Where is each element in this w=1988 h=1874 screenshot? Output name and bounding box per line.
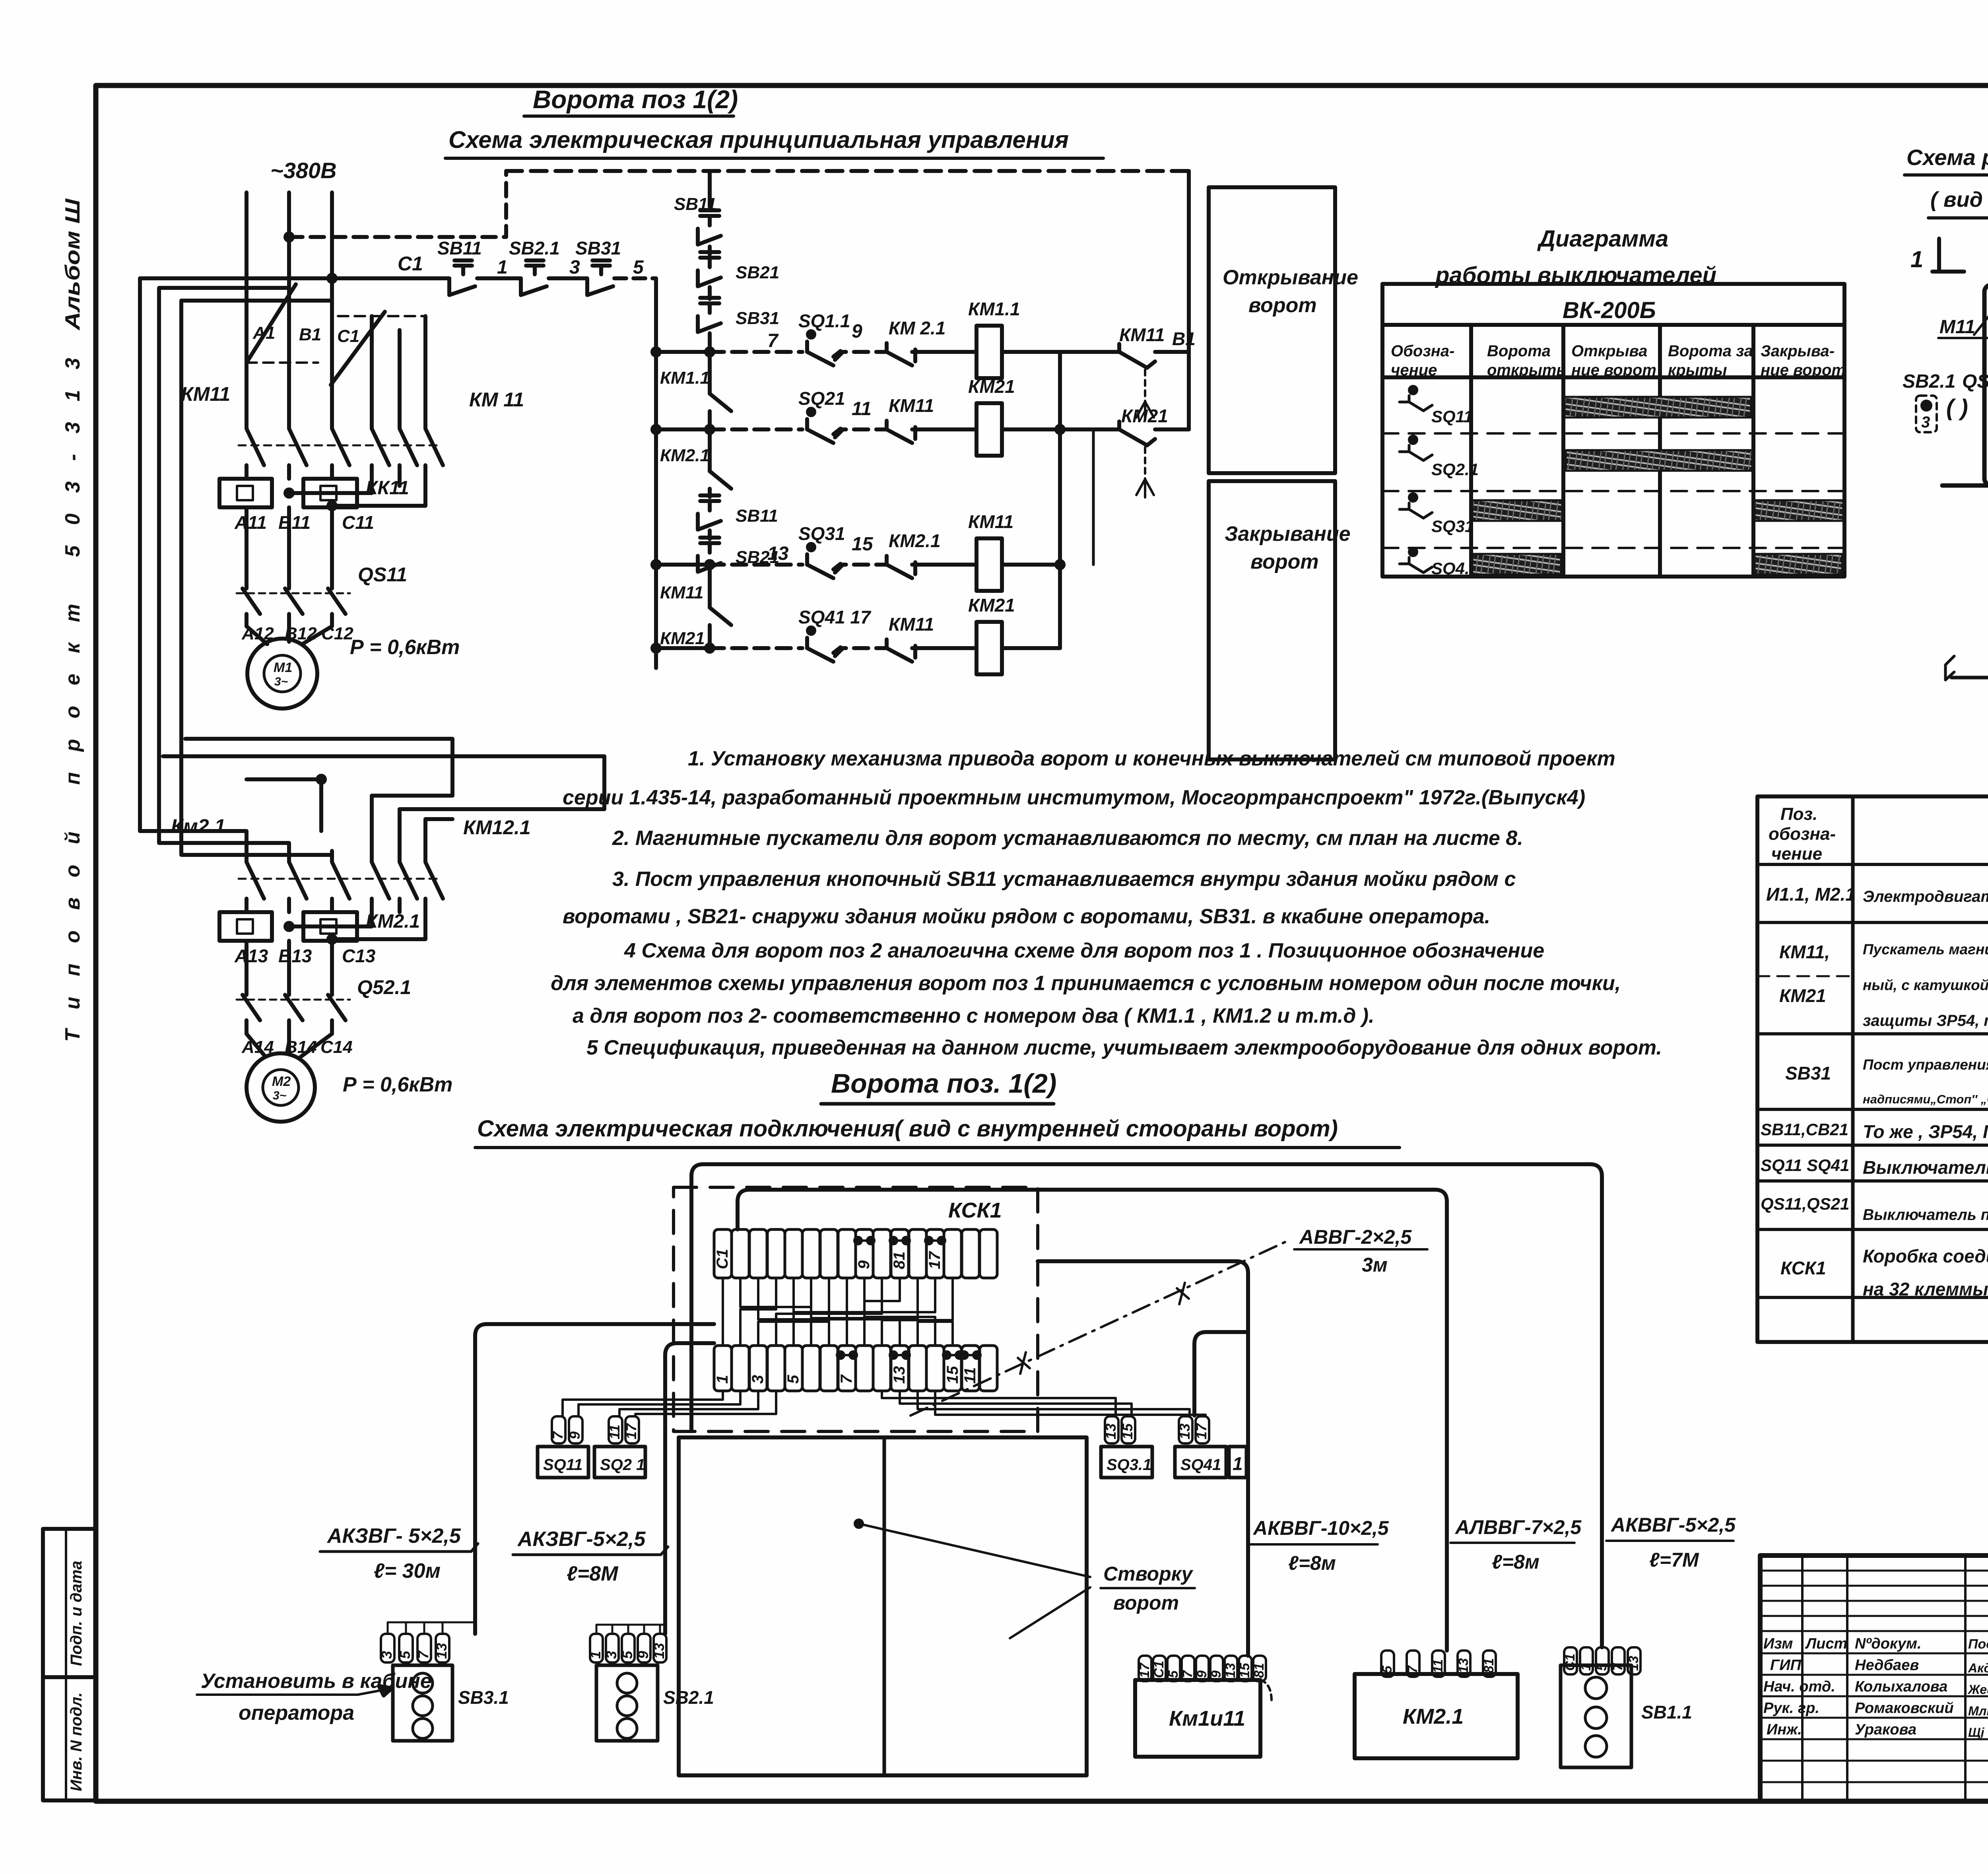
wire dashed branch from phase B to control circuit [289,171,506,237]
contactor KM2.1 main contacts [171,815,531,839]
svg-text:9: 9 [567,1431,583,1439]
terminal cell upper 14 [944,1229,961,1278]
wire jumper 10 between terminal rows [776,1278,882,1346]
svg-text:9: 9 [1194,1670,1209,1678]
wire jumper 4 between terminal rows [740,1278,776,1346]
limit switch box SQ11 [538,1447,588,1478]
KM11 contact blade at x=1005 [400,418,417,479]
svg-text:КСК1: КСК1 [1780,1258,1826,1278]
svg-text:ние ворот: ние ворот [1761,361,1846,379]
svg-text:7: 7 [1405,1665,1420,1673]
limit switch box SQ2 1 [594,1447,645,1478]
svg-text:13: 13 [1626,1656,1641,1671]
svg-text:ℓ=8м: ℓ=8м [1492,1551,1540,1573]
terminal cell upper 9 [856,1229,873,1278]
svg-text:Закрывание: Закрывание [1225,522,1351,546]
interlock contact KM11 right [1119,324,1196,349]
svg-text:SВ2.1: SВ2.1 [663,1687,714,1708]
coil КМ21 [968,376,1015,397]
svg-text:11: 11 [606,1425,623,1439]
svg-text:Пускатель магнитный ПМЕ-134, п: Пускатель магнитный ПМЕ-134, первой вели… [1863,941,1988,957]
svg-text:КМ21: КМ21 [968,376,1015,397]
svg-text:АКВВГ-5×2,5: АКВВГ-5×2,5 [1610,1514,1736,1536]
wire from SQ41 to cable [1194,1332,1248,1416]
svg-text:на 32 клеммы , КсК-32: на 32 клеммы , КсК-32 [1863,1279,1988,1299]
cable label AKBBG-10x2.5 8m [1252,1517,1389,1574]
svg-text:ние ворот: ние ворот [1571,361,1656,379]
svg-text:серии 1.435-14, разработанный: серии 1.435-14, разработанный проектным … [563,786,1585,809]
wire reverse trio merge [289,479,372,493]
devices SB2.1 QS11 [1903,371,1988,392]
svg-text:С1: С1 [1151,1661,1167,1678]
NC contact КМ11 [889,614,934,635]
svg-text:3: 3 [749,1375,767,1384]
push button station SB1.1 [1564,1647,1577,1674]
svg-text:чение: чение [1391,361,1437,379]
wires to switch QS11 [245,507,248,588]
svg-text:3~: 3~ [274,675,288,688]
wire phase A vertical [245,192,248,418]
svg-text:Подп.: Подп. [1968,1637,1988,1652]
switch row SQ11 [1400,396,1432,411]
svg-text:Диаграмма: Диаграмма [1537,226,1668,252]
push button SB21 lower [700,536,719,540]
wire jumper 3 between terminal rows [758,1278,900,1346]
terminal cell lower 10 [873,1346,891,1391]
terminal cell lower 7 [820,1346,838,1391]
terminal cell upper 1 [714,1229,732,1278]
svg-text:И1.1, М2.1: И1.1, М2.1 [1766,884,1856,905]
wire tag 13 [1179,1416,1192,1443]
state bar [1565,397,1751,418]
svg-text:Р = 0,6кВт: Р = 0,6кВт [343,1073,452,1096]
terminal cell upper 12 [909,1229,926,1278]
svg-text:Схема расположения электрооб: Схема расположения электрооборудования в… [1906,145,1988,170]
wire left loop 1 [140,278,247,851]
svg-text:Ворота: Ворота [1487,342,1551,360]
limit switch SQ1.1 [798,311,850,331]
svg-text:КМ2.1: КМ2.1 [660,446,710,465]
svg-text:Пост управления кнопочный ПКЕ-: Пост управления кнопочный ПКЕ-212-3у3 тр… [1863,1056,1988,1073]
svg-text:SB11: SB11 [437,238,482,258]
notes text block [551,747,1662,1059]
svg-text:Поз.: Поз. [1780,804,1817,824]
svg-text:9: 9 [635,1651,651,1659]
svg-text:С1: С1 [714,1249,731,1269]
svg-text:оператора: оператора [239,1701,354,1724]
cable label AVVG-7x2.5 8m [1454,1516,1582,1573]
section mark 1 left [1910,247,1923,272]
push button station SB3.1 [381,1634,394,1662]
svg-text:5: 5 [619,1651,635,1659]
svg-text:КМ11,: КМ11, [1779,942,1830,962]
svg-text:Лист: Лист [1805,1635,1847,1652]
terminal cell lower 11 [891,1346,909,1391]
svg-text:1: 1 [714,1375,731,1384]
rung 2 tap [656,427,710,431]
svg-text:Выключатель пакетный, 6,3А, ~3: Выключатель пакетный, 6,3А, ~380В,ГПЗМЗ-… [1863,1206,1988,1223]
wire C1 control feed [140,276,449,280]
svg-text:5: 5 [1166,1670,1181,1678]
svg-text:Ворота поз 1(2): Ворота поз 1(2) [533,85,738,114]
svg-text:SQ21: SQ21 [798,388,845,409]
svg-text:3: 3 [603,1651,619,1659]
svg-text:SB2.1: SB2.1 [509,238,560,258]
svg-text:КМ2.1: КМ2.1 [366,911,420,932]
KM2.1 contact blade at x=835 [332,851,349,912]
diagram table BK-200B [1382,284,1844,577]
limit switch SQ31 [798,523,845,544]
svg-text:КМ2.1: КМ2.1 [1403,1705,1464,1728]
terminal cell upper 5 [785,1229,802,1278]
wire jumper 13 between terminal rows [794,1278,935,1346]
specification table [1757,796,1988,1342]
svg-text:SQ2.1: SQ2.1 [1431,460,1479,479]
KM11 contact blade at x=1070 [425,418,443,479]
KM2.1 contact blade at x=935 [372,851,389,912]
svg-text:В11: В11 [278,512,311,533]
svg-text:3: 3 [569,257,580,278]
svg-text:17: 17 [623,1423,639,1439]
svg-text:Обозна-: Обозна- [1391,342,1454,360]
svg-text:М1: М1 [274,660,292,675]
svg-text:АКВВГ-10×2,5: АКВВГ-10×2,5 [1252,1517,1389,1539]
svg-text:QS11,QS21: QS11,QS21 [1761,1194,1849,1214]
push button SB2.1 [509,238,580,295]
svg-text:КМ12.1: КМ12.1 [463,816,531,839]
wire interconnect band 3 [247,779,321,831]
wire top control bus [506,169,1189,173]
svg-text:7: 7 [838,1374,855,1384]
svg-text:М2: М2 [272,1074,291,1089]
KM11 contact blade at x=620 [247,418,264,479]
terminal cell lower 6 [802,1346,820,1391]
wire tag 11 [609,1416,622,1443]
svg-text:для элементов схемы управле: для элементов схемы управления ворот поз… [551,972,1621,995]
wire main loop to SB1.1 cable [691,1164,1602,1647]
svg-text:КМ11: КМ11 [889,395,934,416]
svg-text:SQ1.1: SQ1.1 [798,311,850,331]
svg-text:Акдрф: Акдрф [1968,1661,1988,1675]
svg-text:15: 15 [944,1366,961,1384]
svg-text:1: 1 [1910,247,1923,272]
svg-text:А11: А11 [234,512,267,533]
svg-text:SB2.1: SB2.1 [1903,371,1955,392]
svg-text:а для ворот поз 2- соответ: а для ворот поз 2- соответственно с номе… [573,1004,1375,1027]
state bar [1566,450,1752,471]
svg-text:SQ41 17: SQ41 17 [798,607,872,627]
svg-text:SQ31: SQ31 [1431,517,1474,536]
svg-text:Р = 0,6кВт: Р = 0,6кВт [350,636,460,659]
terminal cell upper 10 [873,1229,891,1278]
svg-text:SQ2 1: SQ2 1 [600,1456,645,1474]
wire left cable SB3.1 riser [475,1324,714,1634]
note install in operator cab [201,1670,432,1724]
svg-text:С13: С13 [342,946,376,966]
wire KM1i11 cable riser [1038,1261,1248,1656]
svg-text:чение: чение [1771,844,1822,864]
wire cable SB2.1 riser [665,1343,714,1634]
push button SB11 lower [700,493,719,497]
svg-text:3: 3 [379,1651,395,1659]
svg-text:13: 13 [767,543,789,564]
wire jumper 1 between terminal rows [722,1278,724,1346]
wires funnel to motor M2.1 [247,1020,266,1057]
svg-text:Схема электрическая подключе: Схема электрическая подключения( вид с в… [477,1116,1338,1142]
KM2.1 contact blade at x=1070 [425,851,443,912]
box Opening of gates [1209,187,1335,473]
svg-text:В13: В13 [278,946,312,966]
svg-text:А1: А1 [252,323,275,343]
svg-text:КМ11: КМ11 [660,583,703,602]
gate leaf rectangle [679,1437,1087,1775]
coil КМ1.1 [968,299,1020,319]
motor M2.1 [247,1053,315,1122]
svg-text:АЛВВГ-7×2,5: АЛВВГ-7×2,5 [1454,1516,1582,1538]
svg-text:13: 13 [651,1643,667,1659]
control ladder left rail [654,278,658,668]
terminal cell upper 8 [838,1229,856,1278]
limit switch SQ41 17 [798,607,872,627]
svg-text:SВ1.1: SВ1.1 [1641,1702,1692,1723]
state bar [1755,554,1842,575]
cable label AKBBG-5x2.5 7m [1610,1514,1736,1571]
push button SB3.1 [700,296,719,300]
subtitle Shema elektricheskaya printsipialnaya upravleniya [448,126,1069,153]
svg-text:Нач. отд.: Нач. отд. [1763,1678,1835,1695]
svg-text:КМ1.1: КМ1.1 [660,368,710,388]
diagram table title [1435,226,1716,288]
wire tag 9 [569,1416,582,1443]
switch row SQ4.1 [1400,557,1432,573]
box Closing of gates [1209,481,1335,759]
wire crossover to reverse group [331,312,385,385]
label Stvorku vorot [859,1524,1090,1638]
svg-text:13: 13 [1456,1658,1471,1673]
svg-text:Ворота поз. 1(2): Ворота поз. 1(2) [831,1068,1056,1099]
title layout of equipment [1906,145,1988,170]
svg-text:~380В: ~380В [270,158,337,183]
svg-text:SB31: SB31 [575,238,621,258]
wire left loop 3 [181,301,332,855]
svg-text:КМ11: КМ11 [1119,324,1165,345]
svg-text:С1: С1 [337,326,359,346]
rail section line [1951,676,1988,680]
thermal relay KK11 heaters [219,479,272,507]
svg-text:Выключатель конечный ВК-200Б: Выключатель конечный ВК-200Б [1863,1157,1988,1178]
QS11 blade at x=620 [243,588,260,614]
svg-text:7: 7 [1180,1670,1195,1678]
svg-text:КМ11: КМ11 [968,511,1013,532]
KM2.1 contact blade at x=727 [289,851,307,912]
ground line [1942,484,1988,488]
svg-text:ℓ=7М: ℓ=7М [1649,1549,1699,1571]
svg-text:1: 1 [1233,1453,1243,1474]
svg-text:SQ41: SQ41 [1180,1456,1221,1474]
terminal cell upper 15 [962,1229,979,1278]
NC contact КМ2.1 [889,530,941,551]
svg-text:SB11: SB11 [736,506,778,526]
svg-text:С1: С1 [398,252,423,275]
svg-text:Открывание: Открывание [1223,266,1358,289]
svg-text:13: 13 [433,1643,450,1659]
push button SB11 [437,238,508,295]
terminal cell lower 12 [909,1346,926,1391]
svg-text:3. Пост управления кнопочный: 3. Пост управления кнопочный SВ11 устана… [612,868,1516,891]
terminal cell upper 4 [767,1229,785,1278]
svg-text:17: 17 [1137,1662,1152,1678]
wire phase C vertical [330,192,334,418]
push button SB11 top [674,194,716,214]
svg-text:Схема электрическая принципи: Схема электрическая принципиальная управ… [448,126,1069,153]
svg-text:Подп. и дата: Подп. и дата [68,1561,85,1666]
svg-text:SB3.1: SB3.1 [458,1687,509,1708]
wire tag 17 [625,1416,639,1443]
wire loop 2 to KM2.1 cable [738,1190,1447,1651]
svg-text:7: 7 [415,1650,431,1659]
svg-text:2. Магнитные пускатели для: 2. Магнитные пускатели для ворот устанав… [612,827,1523,850]
QS11 blade at x=727 [285,588,303,614]
svg-text:Электродвигатель асинхронный 3: Электродвигатель асинхронный 380В, 0,6кВ… [1863,888,1988,905]
svg-text:С1: С1 [1563,1654,1578,1671]
svg-text:9: 9 [852,321,862,342]
limit switch SQ21 [798,388,845,409]
svg-text:SВ11,СВ21: SВ11,СВ21 [1761,1120,1848,1139]
dashed boundary box KCK1 [674,1187,1038,1431]
state bar [1472,500,1562,521]
svg-text:Колыхалова: Колыхалова [1855,1678,1947,1695]
terminal cell upper 13 [926,1229,944,1278]
svg-text:QS11: QS11 [358,563,407,586]
wire rung collector vertical [1058,352,1062,648]
svg-text:11: 11 [961,1367,979,1384]
svg-text:Nºдокум.: Nºдокум. [1855,1635,1922,1652]
svg-text:13: 13 [1223,1663,1238,1678]
svg-text:Установить в кабине: Установить в кабине [201,1670,432,1693]
wires funnel to motor M11 [247,614,267,644]
wire jumper 7 between terminal rows [758,1278,829,1346]
rung at y=1420 [710,563,802,567]
svg-text:SQ31: SQ31 [798,523,845,544]
push button SB2.1 [700,250,719,254]
svg-text:КМ11: КМ11 [181,383,230,405]
push button station SB2.1 [590,1634,603,1662]
net ~380V label [270,158,337,183]
svg-text:1: 1 [497,257,508,278]
svg-text:защиты ЗР54, ток уставки тепло: защиты ЗР54, ток уставки теплового реле … [1863,1012,1988,1029]
KM2.1 contact blade at x=1005 [400,851,417,912]
terminal cell lower 2 [732,1346,749,1391]
svg-text:А13: А13 [234,946,268,966]
bottom center title Vorota poz 1(2) [831,1068,1056,1099]
wire interconnect band 2 [163,756,604,851]
svg-text:Щį: Щį [1968,1725,1985,1740]
terminal cell lower 1 [714,1346,732,1391]
svg-text:КМ21: КМ21 [660,629,705,648]
svg-text:Открыва: Открыва [1571,342,1647,360]
svg-text:ℓ=8м: ℓ=8м [1288,1552,1336,1574]
svg-text:ворот: ворот [1250,550,1319,573]
svg-text:SQ11 SQ41: SQ11 SQ41 [1761,1156,1849,1175]
wire jumper 11 between terminal rows [864,1278,900,1346]
svg-text:Жеищ: Жеищ [1967,1682,1988,1697]
cable label AKBBG-5x2.5 8m [517,1528,646,1585]
cable marker ABBG-2x2.5 [911,1241,1288,1416]
svg-text:ВК-200Б: ВК-200Б [1563,297,1656,323]
svg-text:17: 17 [1193,1423,1209,1439]
coil КМ11 [968,511,1013,532]
svg-text:15: 15 [1237,1662,1252,1678]
limit switch box SQ41 [1175,1447,1226,1478]
svg-text:SB21: SB21 [736,263,779,282]
svg-text:АКЗВГ- 5×2,5: АКЗВГ- 5×2,5 [326,1524,461,1548]
svg-text:1. Установку механизма приво: 1. Установку механизма привода ворот и к… [688,747,1615,770]
svg-text:3: 3 [1921,414,1930,431]
svg-text:Q52.1: Q52.1 [357,976,411,998]
svg-text:4 Схема для ворот поз 2 а: 4 Схема для ворот поз 2 аналогична схеме… [624,939,1544,962]
bottom center subtitle connection diagram [477,1116,1338,1142]
label KCK1 [948,1198,1002,1222]
svg-text:ГИП: ГИП [1770,1657,1802,1674]
terminal cell upper 16 [980,1229,997,1278]
svg-text:Инж.: Инж. [1767,1721,1802,1738]
wire jumper 8 between terminal rows [846,1278,848,1346]
wire jumper 6 between terminal rows [811,1278,918,1346]
contact KM1.1 aux [660,368,710,388]
svg-text:КСК1: КСК1 [948,1198,1002,1222]
starter box KM1i11 [1139,1656,1151,1681]
svg-text:1: 1 [587,1651,604,1659]
rung 1 tap [656,350,710,354]
wire jumper 5 between terminal rows [794,1278,829,1346]
terminal cell upper 7 [820,1229,838,1278]
svg-text:13: 13 [1176,1423,1193,1439]
svg-text:SВ31: SВ31 [1785,1063,1831,1084]
svg-text:КМ 11: КМ 11 [469,388,524,411]
svg-text:КМ21: КМ21 [968,595,1015,616]
wire jumper 2 between terminal rows [740,1278,811,1346]
svg-text:Мльи: Мльи [1968,1704,1988,1718]
svg-text:обозна-: обозна- [1769,824,1836,844]
node label C1 [398,252,423,275]
svg-text:АВВГ-2×2,5: АВВГ-2×2,5 [1299,1226,1412,1248]
rung at y=1080 [710,427,802,431]
wire tag 17 [1196,1416,1209,1443]
terminal cell upper 3 [749,1229,767,1278]
wire tag 15 [1122,1416,1135,1443]
coil КМ21 [968,595,1015,616]
KM2.1 contact blade at x=620 [247,851,264,912]
wire left loop 2 [159,288,289,851]
svg-text:надписями„Стоп″ „Открыть″ „Зак: надписями„Стоп″ „Открыть″ „Закрыть″ со с… [1863,1092,1988,1106]
terminal cell lower 14 [944,1346,961,1391]
KM11 contact blade at x=727 [289,418,307,479]
svg-text:Ворота за: Ворота за [1668,342,1753,360]
svg-text:Уракова: Уракова [1855,1721,1916,1738]
svg-text:QS11: QS11 [1962,371,1988,392]
push button SB31 [575,238,644,295]
svg-text:ный, с катушкой на 380 В, блок: ный, с катушкой на 380 В, блок-контакты … [1863,977,1988,993]
KM11 contact blade at x=935 [372,418,389,479]
wire tag 7 [552,1416,565,1443]
KM11 contact blade at x=835 [332,418,349,479]
svg-text:крыты: крыты [1668,361,1727,379]
svg-text:3~: 3~ [273,1089,286,1102]
terminal cell lower 4 [767,1346,785,1391]
svg-text:13: 13 [891,1366,908,1384]
terminal cell upper 11 [891,1229,909,1278]
svg-text:С12: С12 [321,624,353,643]
